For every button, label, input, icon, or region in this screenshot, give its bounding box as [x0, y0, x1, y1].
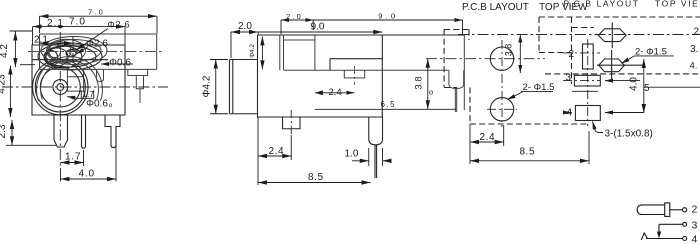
ghost dim 3.8 line [519, 35, 521, 74]
dim 7.0 main line [33, 26, 126, 28]
pad3 leader line right [605, 80, 640, 82]
arrows phi4.2 [214, 60, 218, 114]
jack entry ellipse middle [44, 46, 96, 67]
leader 2-phi1.5 ghost [622, 56, 635, 63]
plug sleeve [665, 203, 670, 217]
dim 4.2 left vertical line [14, 32, 16, 68]
svg-text:3.8: 3.8 [414, 76, 425, 89]
svg-text:Φ2.6: Φ2.6 [108, 20, 131, 30]
pad4 dim line right [605, 112, 644, 114]
svg-text:4: 4 [692, 234, 698, 245]
ghost entry ellipse middle [47, 40, 101, 62]
svg-text:P.C.B LAYOUT: P.C.B LAYOUT [564, 0, 640, 9]
svg-text:2.1: 2.1 [47, 18, 64, 29]
front pin 1 [54, 115, 68, 147]
svg-text:4.0: 4.0 [79, 169, 95, 180]
svg-text:2.: 2. [694, 27, 700, 38]
dim 2.3 vertical line [11, 120, 13, 145]
ghost front pin1 [67, 69, 83, 91]
arrows 4.2 inner [260, 36, 264, 69]
dim 2.4 pcb ext right [503, 125, 505, 146]
center line horizontal through barrel [2, 86, 168, 88]
svg-text:o: o [109, 102, 113, 109]
pcb hole1 horizontal center line [426, 58, 545, 60]
ghost side pin wire [455, 89, 456, 113]
dim phi4.2 line [215, 60, 217, 114]
arrows dim 7.0 main [33, 24, 126, 28]
jack entry ellipse left nest 2 [46, 48, 68, 66]
ghost front body bottom [40, 68, 157, 70]
ghost front step block [128, 69, 148, 75]
pcb holes vertical center line [501, 40, 503, 127]
svg-text:3: 3 [692, 219, 698, 231]
dim 1.0 ext lines [369, 148, 383, 166]
arrow ghost 9.0 right [455, 18, 463, 22]
pad4 dim stub left [566, 112, 571, 114]
front pin 3 [105, 115, 120, 148]
barrel center pin [57, 84, 64, 91]
svg-text:Φ0.6: Φ0.6 [109, 57, 131, 68]
top view oval 1 crosshair [611, 23, 613, 49]
dim 2.1 ghost line [40, 42, 74, 44]
dim 2.4 pcb line [470, 141, 504, 143]
side body internal vertical [329, 59, 331, 71]
terminal 4 circle [683, 237, 687, 241]
pad 3 rect [574, 75, 600, 86]
arrows ghost 2.0 [281, 18, 314, 22]
ghost front body top [40, 33, 157, 35]
svg-text:2: 2 [569, 49, 575, 60]
ghost front body left edge [39, 34, 41, 69]
dim 4.0 vertical line [643, 59, 645, 113]
leader 2-phi1.5 main [508, 91, 524, 99]
underline 2-phi1.5 ghost [635, 55, 674, 57]
ghost dim ext x281 [281, 20, 313, 34]
dim 7.0 ghost ext left [39, 16, 41, 33]
side boss center line [290, 110, 292, 135]
ghost entry left nest 1 [47, 39, 86, 62]
ghost entry ellipse outer [41, 37, 107, 65]
svg-text:o: o [429, 88, 433, 97]
arrows dim 2.4 pcb [470, 140, 504, 144]
front view body outline [32, 45, 125, 115]
center line vertical through pin1 [59, 32, 61, 168]
pad 4 rect [575, 106, 600, 121]
arrows 1.0 [360, 159, 392, 163]
dim chain ext x231 [230, 32, 232, 58]
pcb hole circle 2 [490, 98, 513, 121]
arrows ghost 3.8 [518, 35, 522, 74]
dim 1.0 line right tail [383, 160, 392, 162]
leader phi2.6 main [77, 47, 89, 55]
dim 4.23 vertical line [9, 66, 11, 118]
front pin 2 [82, 115, 86, 148]
svg-text:2.1: 2.1 [34, 35, 48, 46]
svg-text:Φ4.2: Φ4.2 [202, 75, 213, 97]
ghost barrel circle inner arc [40, 60, 98, 99]
svg-text:8.5: 8.5 [308, 172, 324, 183]
ghost side body bottom [284, 69, 449, 71]
dim 7.0 main ext right [124, 27, 126, 45]
ghost entry left nest 2 [49, 42, 71, 60]
arrows ghost 2.4 [315, 90, 355, 95]
dim 2.4 side line [258, 155, 291, 157]
side pin [369, 117, 383, 145]
svg-text:2.0: 2.0 [238, 21, 252, 32]
svg-text:3.8: 3.8 [504, 44, 514, 57]
svg-text:7.0: 7.0 [88, 8, 105, 17]
dim 7.0 ghost line [40, 15, 158, 17]
dim 3.8 pcb line [427, 59, 429, 110]
dim 8.5 pcb ext right [588, 131, 590, 164]
svg-text:9.0: 9.0 [311, 22, 325, 33]
arrows dim 2.1 ghost [40, 41, 74, 45]
arrows dim 1.7 [61, 160, 84, 164]
svg-text:4.23: 4.23 [0, 74, 8, 94]
dim 8.5 pcb ext left [469, 124, 471, 164]
arrows dim 7.0 ghost [40, 14, 158, 18]
svg-text:4.: 4. [690, 61, 698, 72]
ghost dim 6.5 line [315, 108, 456, 110]
arrow 9.0 main right [373, 30, 382, 34]
svg-text:1.7: 1.7 [65, 152, 81, 163]
terminal 2 circle [683, 208, 687, 212]
ghost dim ext x461 [462, 20, 464, 34]
svg-text:4.0: 4.0 [629, 77, 640, 91]
arrows dim 8.5 pcb [470, 159, 589, 163]
leader phi0.6 ghost underline [101, 63, 133, 65]
pcb hole circle 1 [490, 47, 513, 70]
dim 7.0 main ext left [32, 27, 34, 45]
ghost dim 2.4 line [315, 92, 355, 94]
top view dashed rect [539, 17, 700, 84]
svg-text:2.4: 2.4 [329, 87, 342, 98]
svg-text:1.0: 1.0 [345, 149, 359, 160]
dim chain ext x259 [257, 32, 259, 35]
dim 4.2 inner line [261, 36, 263, 69]
dim phi4.2 ext bottom [210, 113, 228, 115]
dim 2.4 ext left long [257, 117, 259, 185]
leader 1.7 underline and ticks [67, 97, 94, 99]
ghost side body right edge [463, 35, 465, 110]
svg-text:Φ0.6: Φ0.6 [86, 99, 108, 110]
terminal 4 spring contact [641, 233, 647, 240]
leader 3-(1.5x0.8) [593, 122, 604, 133]
top view oval 1 [598, 29, 626, 42]
ghost entry left nest 3 [48, 44, 60, 57]
underline 2-phi1.5 main [521, 90, 553, 92]
arrows dim 4.0 [61, 177, 117, 181]
side pin thin wire [375, 145, 377, 178]
pad2 horizontal center line [563, 52, 600, 54]
top view oval 2 [599, 59, 625, 72]
side body top edge shared [258, 34, 465, 36]
arrows 2.0 main [231, 30, 258, 34]
svg-text:4.2: 4.2 [0, 44, 10, 58]
wire terminal 3 [659, 224, 683, 234]
side barrel outline [230, 60, 258, 114]
jack entry ellipse outer [38, 43, 102, 70]
terminal 3 circle [683, 222, 687, 226]
svg-text:3.: 3. [690, 44, 698, 55]
jack entry ellipse left nest 3 [46, 51, 58, 64]
front dimension labels [0, 8, 131, 180]
center line vertical entry [72, 36, 74, 70]
side barrel inner edge line [232, 60, 234, 114]
svg-text:2.4: 2.4 [480, 132, 496, 143]
arrows dim 3.8 pcb [426, 59, 430, 110]
ghost dim 2.0/9.0 chain line [281, 19, 463, 21]
top view oval 2 crosshair [597, 50, 643, 81]
ghost entry center hole [69, 49, 77, 55]
jack entry ellipse left nest 1 [44, 46, 82, 68]
arrows 2.4 side [258, 154, 291, 158]
pad3 sub line [572, 90, 598, 92]
svg-text:Φ2.6: Φ2.6 [86, 38, 108, 49]
pcb hole2 horizontal center line [487, 108, 517, 110]
dim 1.7 ext right [83, 150, 85, 166]
dim 2.0/9.0 main chain line [231, 31, 382, 33]
dim 8.5 side line [258, 182, 371, 184]
arrows dim 4.0 [642, 59, 646, 113]
ghost barrel circle outer arc [37, 56, 103, 100]
svg-text:TOP VIE: TOP VIE [655, 0, 699, 9]
ghost side barrel junction [314, 35, 316, 70]
svg-text:8.5: 8.5 [520, 147, 536, 158]
ghost side boss center line [354, 66, 356, 85]
terminal 3 contact arrow [657, 232, 661, 239]
svg-text:1.7: 1.7 [82, 89, 94, 99]
svg-text:2: 2 [692, 204, 698, 216]
ghost side barrel top [284, 39, 315, 41]
ghost front pin wire [139, 89, 141, 103]
svg-text:5: 5 [644, 83, 650, 94]
arrows dim 4.23 [8, 66, 12, 118]
pcb dashed outline left [444, 30, 470, 88]
side body internal seam [330, 58, 382, 60]
dim 4.0 line [61, 178, 117, 180]
barrel circle outer [33, 59, 88, 114]
small dash segment [572, 27, 594, 29]
svg-text:2.4: 2.4 [269, 146, 285, 157]
svg-text:2- Φ1.5: 2- Φ1.5 [635, 47, 667, 58]
pcb dashed outline bottom [470, 88, 589, 125]
ghost side boss [344, 70, 364, 78]
dim 4.2 ext bottom [20, 64, 35, 66]
svg-text:P.C.B LAYOUT: P.C.B LAYOUT [462, 2, 529, 13]
dim phi4.2 ext top [210, 59, 228, 61]
side mounting boss [283, 117, 301, 129]
wire terminal 4 [646, 238, 683, 240]
pad4 horizontal center line [563, 112, 575, 114]
dim 8.5 pcb line [470, 160, 589, 162]
arrows dim 4.2 left [13, 32, 17, 68]
svg-text:6.5: 6.5 [381, 100, 397, 109]
arrows dim 2.3 [10, 120, 14, 145]
dim 2.4 ext right [290, 135, 292, 160]
dim 1.7 line [61, 162, 84, 164]
plug tip [637, 205, 665, 215]
front dimension arrowheads [8, 14, 157, 181]
ghost center line horizontal entry [28, 51, 163, 53]
dim 2.3 ext bottom [6, 144, 56, 146]
dim 4.0 ext left [60, 168, 62, 182]
pad3 horizontal center line [563, 80, 600, 82]
side body outline [258, 35, 383, 117]
long dashed line lower [545, 73, 700, 75]
leader phi2.6 ghost [76, 29, 108, 51]
top view center line [458, 34, 700, 36]
svg-text:3-(1.5x0.8): 3-(1.5x0.8) [605, 129, 653, 140]
barrel circle 3 [40, 67, 80, 107]
svg-text:2.0: 2.0 [286, 12, 303, 21]
pad 2 rect [583, 44, 594, 69]
jack entry center hole [66, 50, 76, 57]
dim 7.0 ghost ext right [156, 16, 158, 33]
arrows 8.5 side [258, 180, 371, 184]
dim 8.5 partial line right [644, 86, 700, 88]
barrel circle 2 [35, 62, 85, 112]
svg-text:2- Φ1.5: 2- Φ1.5 [523, 82, 555, 93]
svg-text:7.0: 7.0 [69, 17, 86, 28]
ghost front body right edge [156, 34, 158, 69]
barrel circle small [53, 80, 68, 95]
ghost front pin2 [97, 69, 104, 81]
svg-text:9.0: 9.0 [378, 12, 398, 21]
svg-text:4: 4 [567, 108, 573, 119]
svg-text:3: 3 [566, 73, 572, 84]
front body internal seam line [32, 59, 108, 61]
ghost front side pin [136, 76, 143, 89]
svg-text:2.3: 2.3 [0, 124, 8, 138]
ghost side barrel left edge double [280, 35, 284, 70]
dim 1.0 line left tail [352, 160, 369, 162]
dim 4.2 ext top [10, 30, 33, 32]
svg-text:Φ4.2: Φ4.2 [249, 44, 256, 58]
pads vertical center line [587, 39, 589, 126]
wire terminal 2 [670, 209, 683, 211]
dim 4.0 ext right [115, 128, 117, 182]
ghost side pin [449, 70, 464, 88]
